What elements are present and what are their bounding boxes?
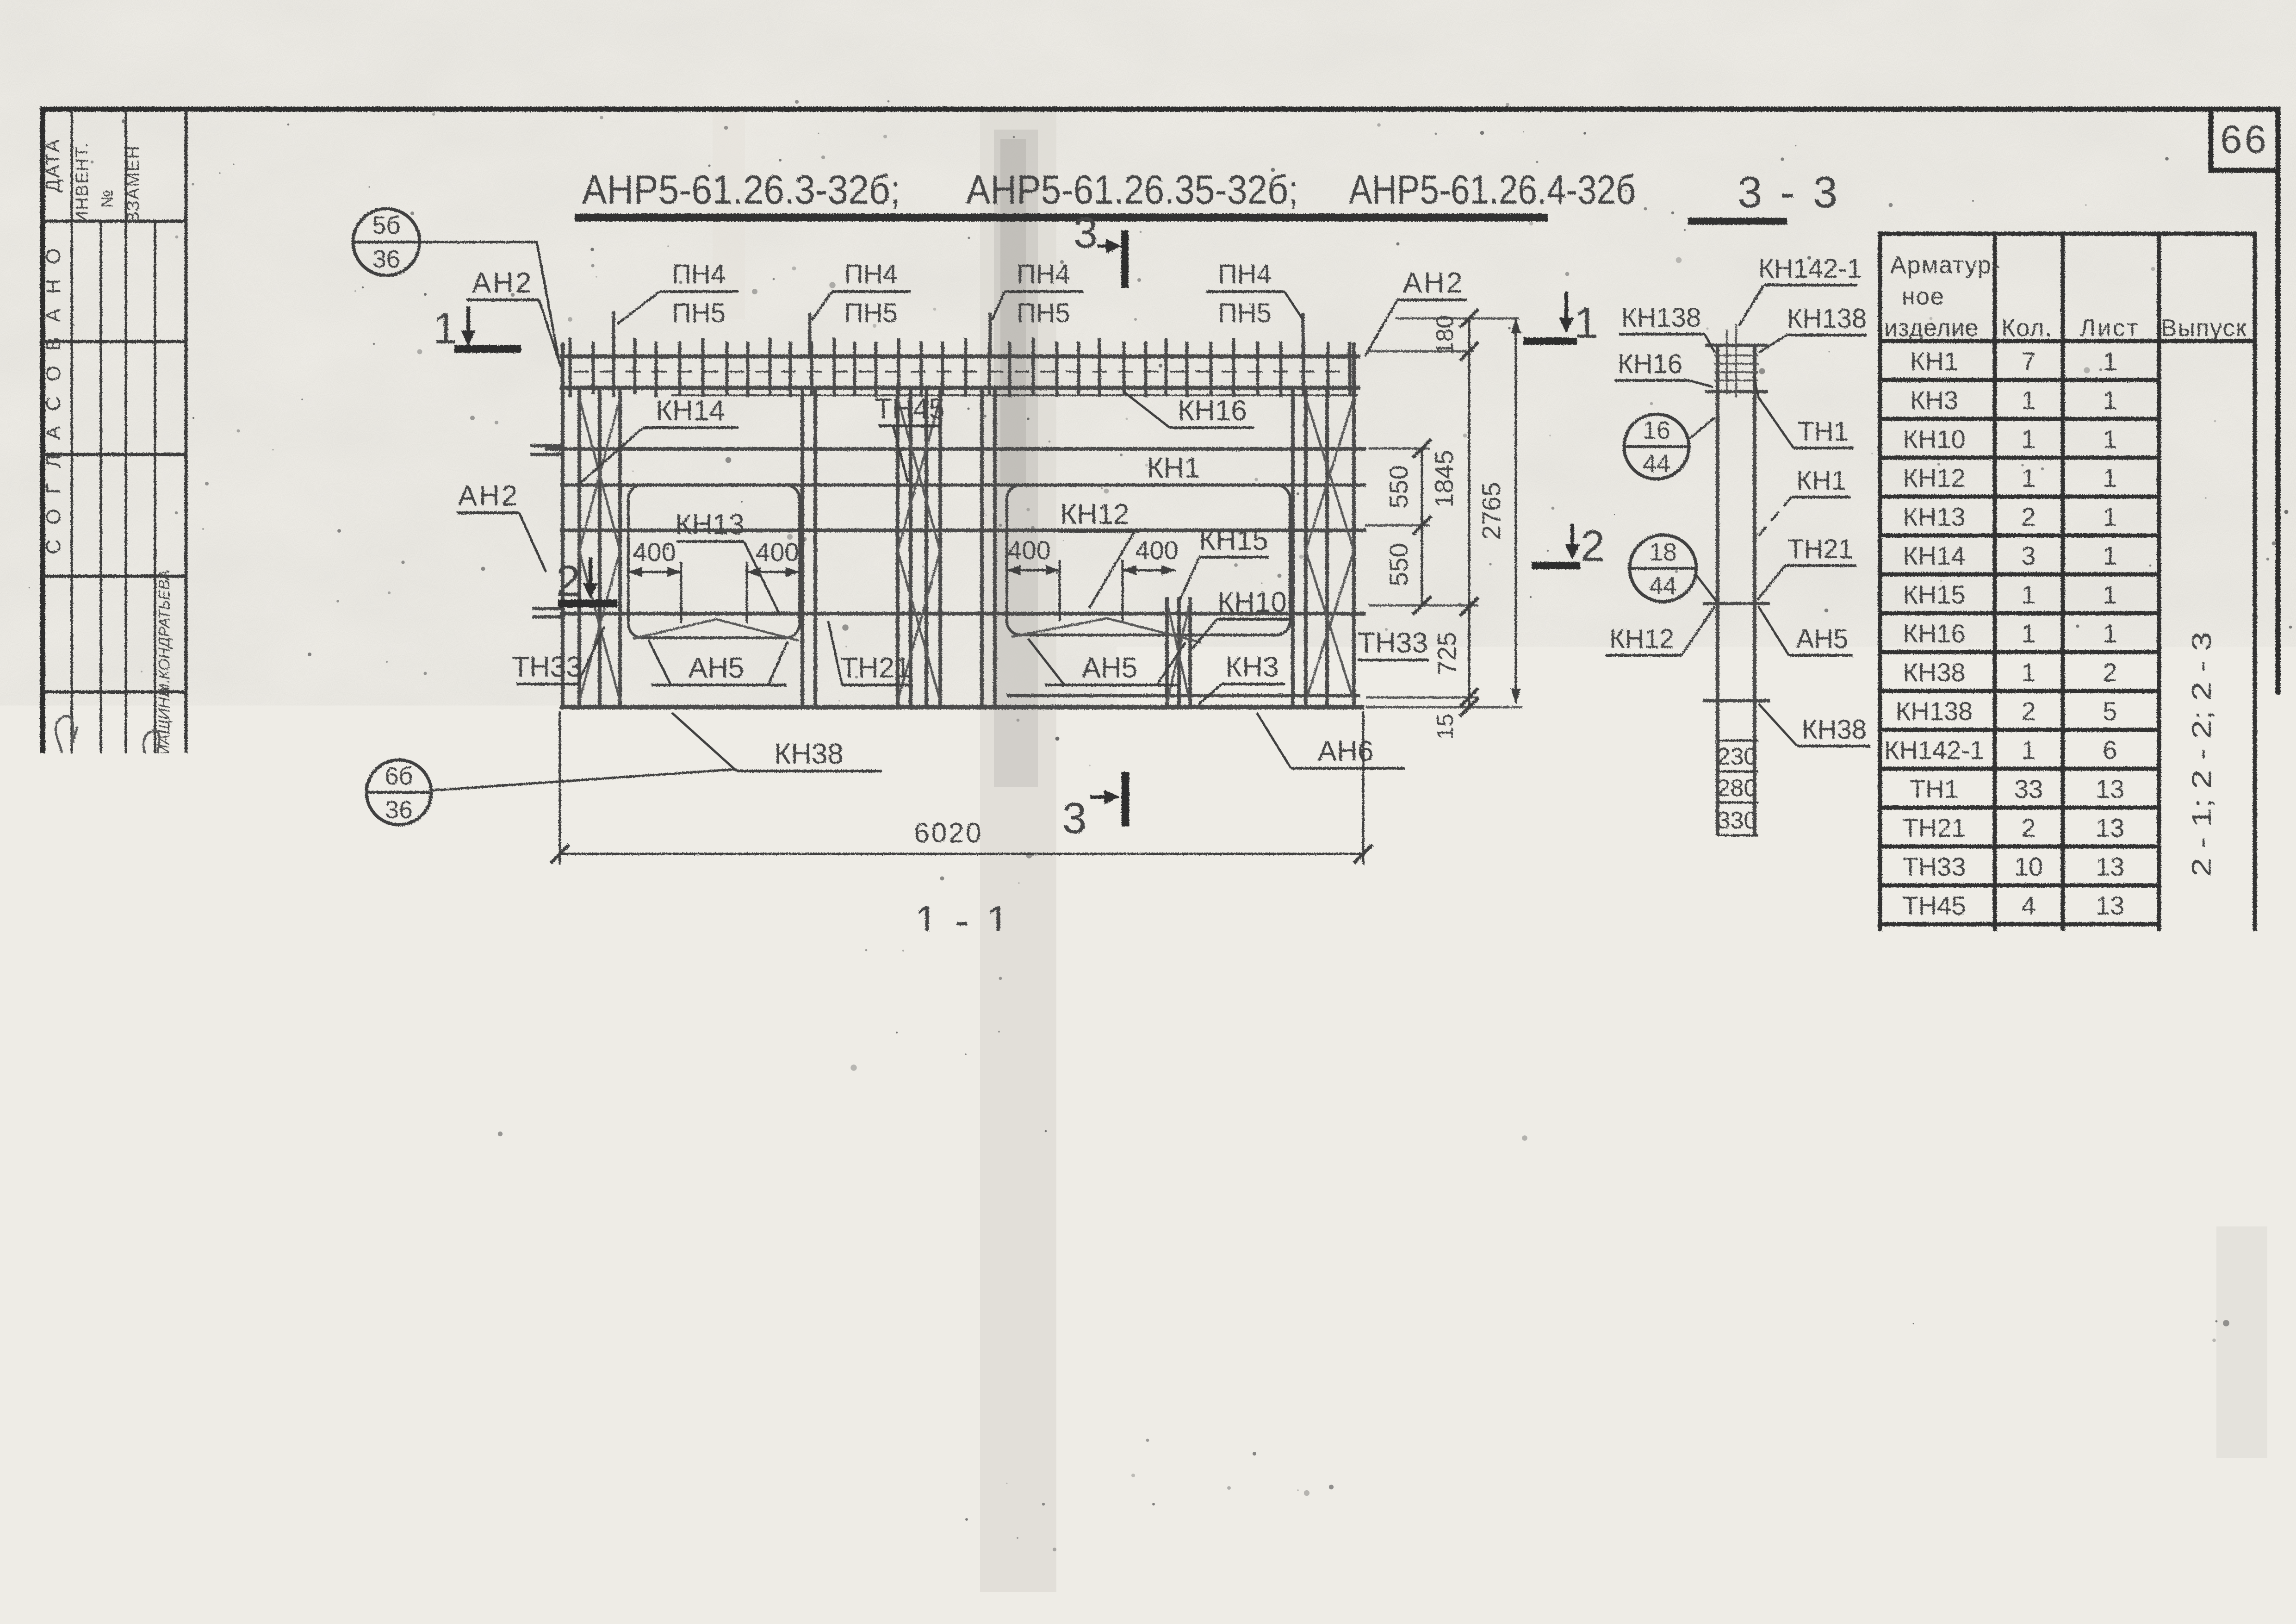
label КН10 2-2 [1018, 1226, 1172, 1291]
svg-text:КН142-1: КН142-1 [1758, 254, 1862, 284]
dimension 880 [1198, 1338, 1372, 1377]
left end cage diagonals [579, 398, 620, 701]
svg-text:2: 2 [2021, 502, 2035, 531]
label АН5 left [649, 641, 788, 685]
svg-text:АН2: АН2 [1403, 267, 1464, 299]
svg-text:ИНВЕНТ.: ИНВЕНТ. [73, 142, 92, 224]
svg-text:15: 15 [1432, 714, 1458, 740]
svg-text:1: 1 [2103, 386, 2117, 415]
svg-text:Лист: Лист [2080, 315, 2140, 342]
section marker 3 bottom [1062, 772, 1125, 843]
svg-text:КН3: КН3 [1225, 651, 1278, 683]
svg-text:180: 180 [1432, 315, 1458, 355]
label КН15 2-2 [1310, 1228, 1393, 1290]
svg-text:ВЗАМЕН: ВЗАМЕН [124, 145, 143, 224]
svg-text:Ст.техник: Ст.техник [44, 818, 63, 896]
svg-text:КН14: КН14 [1903, 541, 1965, 570]
svg-text:44: 44 [1432, 1232, 1459, 1260]
svg-text:ПН5: ПН5 [1017, 298, 1070, 328]
svg-text:ТК: ТК [206, 1485, 261, 1532]
svg-text:КН10: КН10 [1102, 1226, 1167, 1256]
svg-text:4: 4 [2021, 969, 2035, 998]
svg-text:АН6: АН6 [1318, 735, 1374, 767]
title block grid [186, 1479, 2278, 1590]
label АН5 right [1028, 639, 1185, 685]
svg-text:КН14: КН14 [656, 395, 725, 427]
svg-text:11: 11 [2097, 1069, 2123, 1098]
dimension 275 [1206, 927, 1248, 956]
svg-text:Ю.ГЕРМАН: Ю.ГЕРМАН [98, 927, 117, 1016]
svg-text:ИНЖЕНЕР: ИНЖЕНЕР [155, 1162, 173, 1244]
svg-text:4: 4 [2021, 930, 2035, 959]
stamp name Л.БОРДАХ [154, 931, 173, 1014]
svg-text:2: 2 [2021, 697, 2035, 726]
svg-text:ДАТА: ДАТА [42, 138, 63, 192]
section dim boxes 230 280 330 [1717, 740, 1758, 835]
svg-text:400: 400 [756, 537, 799, 566]
svg-text:19: 19 [1432, 1198, 1459, 1226]
svg-text:АН2: АН2 [1439, 1049, 1500, 1081]
stamp name Н.РОСИНСКИЙ [73, 916, 90, 1028]
svg-text:КН16: КН16 [1618, 349, 1682, 379]
svg-text:275: 275 [1206, 927, 1248, 955]
svg-text:1: 1 [433, 304, 458, 353]
svg-text:4: 4 [2021, 891, 2035, 920]
svg-text:17633: 17633 [2026, 1590, 2125, 1624]
svg-text:54: 54 [2224, 1564, 2254, 1594]
label АН2 upper left [466, 267, 561, 367]
svg-text:ЦНИИЭП: ЦНИИЭП [64, 1410, 127, 1563]
label АН2 upper right [1365, 267, 1467, 356]
svg-text:КН15: КН15 [1199, 524, 1268, 556]
svg-text:**ПН4 для панелей толщиной: **ПН4 для панелей толщиной 300, 350 мм [1785, 1305, 2281, 1335]
small cage diagonals [1167, 602, 1190, 703]
label КН10 [1192, 586, 1291, 649]
svg-text:18: 18 [1649, 538, 1677, 566]
stamp label СОГЛАСОВАНО [42, 244, 65, 554]
top rebar band rails КН1 [560, 356, 1360, 395]
svg-text:1: 1 [2103, 424, 2117, 454]
section column verticals [1718, 345, 1755, 835]
svg-text:Кол.: Кол. [2001, 315, 2053, 342]
svg-text:РУК.ГРУППЫ: РУК.ГРУППЫ [126, 1155, 143, 1251]
svg-text:КН12: КН12 [1060, 498, 1129, 530]
opening 1 outline [628, 485, 800, 638]
label КН38 [672, 713, 882, 771]
svg-text:280: 280 [1717, 775, 1757, 802]
svg-text:АНР5-61.26.4-32б: АНР5-61.26.4-32б [1349, 167, 1636, 212]
svg-text:ЖИЛИЩА: ЖИЛИЩА [129, 1275, 159, 1407]
svg-text:КН38: КН38 [774, 738, 844, 770]
svg-text:КН1: КН1 [1910, 347, 1958, 376]
svg-text:2: 2 [1581, 522, 1605, 571]
svg-text:ПН4: ПН4 [1218, 259, 1272, 289]
svg-text:7: 7 [2021, 347, 2035, 376]
svg-text:АН5: АН5 [1796, 624, 1849, 654]
svg-text:13: 13 [2096, 774, 2124, 803]
svg-text:ТН21: ТН21 [1787, 534, 1853, 564]
stamp label ГЛ.ИНЖ.ОТД [73, 1151, 91, 1255]
svg-text:1: 1 [2103, 619, 2117, 648]
svg-text:2 - 1; 2 - 2; 2 - 3: 2 - 1; 2 - 2; 2 - 3 [2187, 632, 2217, 877]
horizontal bar y1326 [560, 612, 1366, 616]
stamp name Р.ДОЛМАЩИНА [127, 917, 143, 1027]
stamp label РУК. ГР. [154, 824, 174, 890]
svg-text:№: № [97, 190, 116, 208]
svg-text:11: 11 [2097, 969, 2123, 998]
label КН3 2-2 [1194, 1226, 1285, 1290]
svg-text:10: 10 [2014, 852, 2043, 881]
label КН1 2-2 left [416, 1301, 563, 1358]
svg-text:36: 36 [385, 796, 413, 824]
dimension 120/5780/120 [546, 1051, 1392, 1125]
section column tie rows [1703, 345, 1770, 701]
stamp name М.КОНДРАТЬЕВА [155, 570, 173, 696]
svg-text:67: 67 [2209, 1592, 2240, 1622]
svg-text:ГЛ. ИНЖ.ОТД.: ГЛ. ИНЖ.ОТД. [73, 1151, 91, 1255]
stamp label РУК.ГРУППЫ [126, 1155, 143, 1251]
svg-text:120: 120 [1328, 1070, 1366, 1096]
svg-text:КН10: КН10 [1217, 586, 1287, 618]
svg-text:КН142-1: КН142-1 [1884, 735, 1984, 765]
svg-text:550: 550 [1384, 543, 1413, 586]
label КН16 section [1615, 349, 1713, 387]
bottom chord [560, 705, 1364, 709]
bent anchor АН5 under opening 1 [633, 619, 799, 641]
label КН1 [1147, 452, 1200, 484]
right end cage verticals [1293, 342, 1354, 707]
svg-text:КН38: КН38 [1802, 715, 1867, 745]
svg-text:КН142-1: КН142-1 [1068, 929, 1172, 959]
svg-text:ТН45: ТН45 [1903, 891, 1966, 920]
title cell Лист 54 [2212, 1541, 2271, 1594]
callout circle 16/44 [1624, 414, 1715, 479]
stamp label ГЛ.ИНЖ.ПР. [99, 1160, 117, 1247]
dimension 400 opening2 right [1123, 535, 1179, 621]
dimension 400 opening1 right [747, 537, 800, 623]
svg-text:АНР5-61.26.3-32б;: АНР5-61.26.3-32б; [582, 167, 900, 212]
callout circle 6б/36 [366, 760, 737, 825]
section marker 3 top [1074, 208, 1125, 288]
svg-text:44: 44 [1649, 572, 1677, 600]
label АН6 [1257, 713, 1405, 768]
svg-text:1: 1 [1574, 299, 1599, 348]
section marker 2 right [1532, 522, 1605, 571]
svg-text:ное: ное [1902, 283, 1945, 310]
label КН142-1 in 1-1 [1066, 929, 1225, 990]
svg-text:1: 1 [2021, 580, 2035, 609]
stamp signature cursive [141, 730, 170, 787]
svg-text:КН138: КН138 [1787, 304, 1867, 334]
svg-text:660: 660 [936, 1370, 978, 1398]
stamp label ДАТА [42, 138, 63, 192]
svg-text:Н.РОСИНСКИЙ: Н.РОСИНСКИЙ [73, 916, 90, 1028]
horizontal bar y970 [545, 447, 1366, 451]
svg-text:РУК. ГР.: РУК. ГР. [154, 824, 174, 890]
pier cage middle diagonals [898, 398, 940, 701]
label КН16 [1123, 392, 1254, 428]
section marker 2 left [556, 557, 617, 606]
svg-text:1: 1 [2103, 580, 2117, 609]
band vertical ties ТН1 [570, 338, 1350, 397]
svg-text:5б: 5б [372, 212, 401, 239]
svg-text:ПН5: ПН5 [1908, 1091, 1960, 1120]
dim chain 180/1845/725/15 [1429, 309, 1478, 740]
pier cage middle verticals КН14 [898, 388, 940, 707]
svg-text:13: 13 [2096, 813, 2124, 842]
svg-text:3: 3 [1074, 208, 1098, 257]
callout circle 18/44 [1630, 535, 1717, 602]
section 2-2 posts [566, 1276, 1371, 1343]
section КН138 hash bundle [1714, 324, 1758, 397]
bent anchor АН5 under opening 2 [1011, 618, 1201, 642]
label КН38 section [1758, 703, 1870, 746]
svg-text:КН12: КН12 [1609, 624, 1674, 654]
svg-text:АРМАТУРНЫЕ БЛОКИ АНР5-61.26.: АРМАТУРНЫЕ БЛОКИ АНР5-61.26.3-32б; АНР5-… [433, 1539, 1946, 1587]
sheet number box 66 [2211, 109, 2278, 170]
svg-text:400: 400 [633, 537, 676, 566]
section 1-1 end hooks [553, 998, 1382, 1041]
svg-text:КН1: КН1 [421, 1325, 474, 1357]
label КН15 [1180, 524, 1269, 600]
right dim extension lines [1365, 318, 1522, 707]
label ТН45 [875, 393, 945, 482]
svg-text:АН5: АН5 [1909, 969, 1960, 998]
stamp signatures row [49, 1046, 195, 1129]
svg-text:2 - 2: 2 - 2 [923, 1166, 1020, 1213]
title row 1: panel group [426, 1481, 1867, 1532]
svg-text:2: 2 [2021, 1008, 2035, 1037]
svg-text:КН10: КН10 [1903, 424, 1965, 454]
svg-text:КН16: КН16 [1178, 395, 1247, 427]
callout circle 5б/36 [353, 209, 559, 360]
svg-text:ПН5 для панелей толщиной 4: ПН5 для панелей толщиной 400 мм. [1816, 1342, 2284, 1372]
handwritten page notes [2026, 1590, 2240, 1624]
svg-text:ПН4: ПН4 [672, 259, 726, 289]
label АН2 1-1 right [1370, 1020, 1503, 1082]
svg-text:1845: 1845 [1429, 450, 1458, 508]
svg-text:КН13: КН13 [1903, 502, 1965, 531]
svg-text:ПН4: ПН4 [844, 259, 898, 289]
right end cage diagonals [1306, 398, 1354, 701]
svg-text:КН1: КН1 [1796, 466, 1846, 496]
svg-text:ТН1: ТН1 [782, 930, 832, 960]
dimension 6020 [551, 711, 1372, 865]
section 1-1 rails [563, 995, 1377, 1039]
svg-text:405: 405 [586, 1371, 627, 1398]
svg-text:3: 3 [1062, 794, 1087, 843]
horizontal bar y1146 [560, 529, 1366, 532]
svg-text:1: 1 [2103, 502, 2117, 531]
svg-text:5: 5 [2103, 697, 2117, 726]
svg-text:4: 4 [2021, 1069, 2035, 1098]
section 1-1 ties [584, 994, 1348, 1049]
stamp org ЖИЛИЩА [129, 1275, 159, 1407]
svg-text:Р.ДОЛМАЩИНА: Р.ДОЛМАЩИНА [127, 917, 143, 1027]
stamp label НАЧ.ОТД.17 [45, 1157, 63, 1250]
svg-text:КН15: КН15 [1903, 580, 1965, 609]
svg-text:КН1: КН1 [1147, 452, 1200, 484]
horizontal bar y1503 right [1007, 694, 1360, 697]
svg-text:1: 1 [2021, 619, 2035, 648]
svg-text:2270: 2270 [1125, 1370, 1181, 1398]
label КН14 2-2 [820, 1228, 1065, 1291]
pier cage right verticals [982, 388, 995, 707]
dimension 400 opening1 left [628, 537, 681, 623]
svg-text:АН2: АН2 [410, 1049, 472, 1081]
svg-text:2: 2 [2103, 658, 2117, 687]
stamp label ВЗАМЕН [124, 145, 143, 224]
drawing heading АНР5 titles [575, 167, 1636, 218]
svg-text:ТН33: ТН33 [1358, 627, 1428, 659]
label ТН1 шаг 300 [722, 930, 873, 1003]
svg-text:АН2: АН2 [458, 480, 520, 512]
svg-text:изделие: изделие [1884, 315, 1979, 342]
svg-text:ПН5: ПН5 [844, 298, 898, 328]
callout circle 19/44 [1394, 1196, 1478, 1261]
svg-text:2: 2 [2021, 813, 2035, 842]
dim chain 550/550 [1384, 439, 1431, 615]
svg-text:ПН4: ПН4 [1017, 259, 1070, 289]
svg-text:11: 11 [2097, 1008, 2123, 1037]
dim chain 2765 [1477, 318, 1521, 703]
svg-text:ПН4**: ПН4** [1898, 1051, 1970, 1080]
label КН142-1 [1739, 254, 1862, 326]
svg-text:1: 1 [2021, 463, 2035, 492]
svg-text:1: 1 [2103, 541, 2117, 570]
svg-text:2: 2 [556, 557, 581, 606]
svg-text:КН3: КН3 [1227, 1226, 1277, 1256]
svg-text:КН3: КН3 [1910, 386, 1958, 415]
label АН5 section [1758, 606, 1853, 655]
svg-text:НАЧ.ОТД.17: НАЧ.ОТД.17 [45, 1157, 63, 1250]
title block ТК [206, 1485, 261, 1532]
svg-text:13: 13 [2096, 852, 2124, 881]
svg-text:1: 1 [2103, 347, 2117, 376]
svg-text:230: 230 [1717, 743, 1757, 770]
lifting loops ПН4 wires [614, 311, 1303, 356]
svg-text:ШАГ 300: ШАГ 300 [771, 964, 873, 991]
svg-text:КН12: КН12 [1903, 463, 1965, 492]
svg-text:ТН21: ТН21 [840, 652, 911, 684]
section heading 3-3 [1688, 168, 1840, 221]
svg-text:550: 550 [1384, 465, 1413, 508]
horizontal bar y1048 КН1 [560, 484, 1366, 487]
table header Арматурное изделие [1884, 252, 2247, 342]
parts table grid [1880, 234, 2255, 1120]
svg-text:1.132-2: 1.132-2 [2189, 1505, 2277, 1533]
table note выпуск 2-1 2-2 2-3 [2187, 632, 2217, 877]
label КН13 [675, 509, 780, 616]
svg-text:ПН5: ПН5 [672, 298, 726, 328]
label ТН21 section [1757, 534, 1856, 600]
label КН138 left [1619, 303, 1715, 353]
svg-text:5780: 5780 [942, 1412, 1011, 1443]
svg-text:405: 405 [1312, 1371, 1352, 1398]
label КН12 [1060, 498, 1138, 608]
label ТН1 section [1754, 376, 1854, 448]
svg-text:Выпуск: Выпуск [2161, 315, 2247, 342]
heading 1-1 [915, 898, 1012, 950]
stamp signature squiggle 1 [52, 715, 83, 782]
svg-text:ТН33: ТН33 [512, 651, 582, 683]
svg-text:120: 120 [573, 1070, 611, 1096]
opening 2 outline [1007, 485, 1290, 635]
svg-text:670: 670 [835, 1370, 877, 1398]
svg-text:КН16: КН16 [1903, 619, 1965, 648]
svg-text:ТН45: ТН45 [875, 393, 945, 425]
svg-text:1370: 1370 [692, 1370, 748, 1398]
label КН14 [580, 395, 738, 483]
label КН1 2-2 right [1375, 1304, 1499, 1363]
svg-text:КН14: КН14 [996, 1228, 1061, 1258]
svg-text:725: 725 [1432, 632, 1461, 675]
svg-text:Арматур-: Арматур- [1890, 252, 2001, 279]
table rows data [1884, 347, 2124, 1120]
svg-text:КН13: КН13 [675, 509, 745, 541]
title cell Серия 1.132-2 [2189, 1481, 2277, 1533]
svg-text:Л.БОРДАХ: Л.БОРДАХ [154, 931, 173, 1014]
svg-text:Серия: Серия [2192, 1481, 2276, 1506]
svg-text:1: 1 [2021, 658, 2035, 687]
svg-text:33: 33 [2014, 774, 2043, 803]
label КН3 [1198, 651, 1285, 704]
left stamp strip grid [43, 109, 186, 1590]
svg-text:ТН33: ТН33 [1903, 852, 1966, 881]
svg-text:КН15: КН15 [1323, 1228, 1388, 1258]
stamp name Б.ШЛЯПИН [44, 925, 63, 1020]
labels ПН4 ПН5 stack 1 [617, 259, 738, 328]
svg-text:6020: 6020 [914, 817, 983, 848]
svg-text:5780: 5780 [937, 1064, 1006, 1095]
stamp org ЦНИИЭП [64, 1410, 127, 1563]
dimension chain 405/1370/670/660/2270/405 [569, 1335, 1374, 1462]
svg-text:400: 400 [1007, 535, 1050, 565]
section marker 1 right [1523, 292, 1598, 348]
svg-text:АНР5-61.26.35-32б;: АНР5-61.26.35-32б; [966, 167, 1298, 212]
svg-text:1972: 1972 [192, 1544, 275, 1585]
stamp label ИНВЕНТ № [73, 142, 116, 224]
label АН2 lower left [457, 480, 546, 572]
svg-text:ТН21: ТН21 [1903, 813, 1966, 842]
svg-text:АН2: АН2 [1909, 930, 1960, 959]
svg-text:АН5: АН5 [1082, 652, 1138, 684]
svg-text:1-10: 1-10 [2142, 1565, 2194, 1594]
small cage КН10/КН3 verticals [1167, 597, 1190, 707]
svg-text:3 - 3: 3 - 3 [1738, 168, 1840, 217]
svg-text:Б.ШЛЯПИН: Б.ШЛЯПИН [44, 925, 63, 1020]
svg-text:330: 330 [1717, 807, 1757, 834]
svg-text:АН2: АН2 [472, 267, 534, 299]
label ТН33 right [1358, 627, 1429, 660]
section marker 1 left [433, 304, 521, 353]
svg-text:М.КОНДРАТЬЕВА: М.КОНДРАТЬЕВА [155, 570, 173, 696]
dimension 5780 bottom [569, 1412, 1374, 1458]
svg-text:1: 1 [2103, 463, 2117, 492]
section 2-2 rails [562, 1288, 1377, 1330]
svg-text:КН138: КН138 [1896, 697, 1973, 726]
svg-text:КН38: КН38 [1903, 658, 1965, 687]
svg-text:1: 1 [2021, 386, 2035, 415]
scan shading vertical band center [713, 111, 2267, 1592]
labels ПН4 ПН5 stack 3 [992, 259, 1083, 328]
svg-text:ТН1: ТН1 [1910, 774, 1959, 803]
svg-text:ПАНЕЛИ ГРУППЫ НР5 ТОЛЩИНОЙ: ПАНЕЛИ ГРУППЫ НР5 ТОЛЩИНОЙ 300, 350 и 40… [426, 1481, 1867, 1532]
title block 1972 [192, 1544, 275, 1585]
label КН12 section [1606, 606, 1715, 655]
label КН1 section [1757, 466, 1851, 537]
label ТН33 left [512, 627, 604, 684]
